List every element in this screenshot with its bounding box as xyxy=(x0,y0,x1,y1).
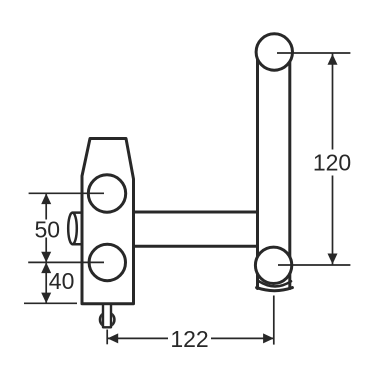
stem ball xyxy=(100,312,114,326)
svg-text:122: 122 xyxy=(170,326,208,352)
arrow right at 122 xyxy=(263,333,274,343)
horizontal pipe xyxy=(134,212,258,246)
extension line stem xyxy=(106,330,108,345)
stem white core xyxy=(102,305,112,326)
arrow up at 40 top xyxy=(41,262,51,273)
arrow left at 122 xyxy=(108,333,119,343)
body bottom circle xyxy=(89,244,125,280)
stem lines xyxy=(103,305,111,327)
right pipe bottom circle xyxy=(255,247,291,283)
right vertical pipe xyxy=(258,52,290,289)
extension line top circle center xyxy=(29,192,104,194)
pipe bottom cup outer edge xyxy=(257,288,293,291)
svg-text:50: 50 xyxy=(35,216,61,242)
dimension line 50 xyxy=(45,193,47,262)
extension line body bottom xyxy=(24,302,77,304)
arrow up at 120 top xyxy=(328,54,338,65)
dimension line 120 xyxy=(332,53,334,265)
arrow up at 50 top xyxy=(41,193,51,204)
right pipe top circle xyxy=(256,34,292,70)
extension line right pipe bottom xyxy=(273,296,275,345)
svg-text:40: 40 xyxy=(49,268,75,294)
knob top line xyxy=(73,211,83,214)
body outline xyxy=(82,139,134,304)
knob bottom line xyxy=(73,243,83,246)
arrow down at 50 bottom xyxy=(41,252,51,263)
extension line bottom circle center xyxy=(28,261,104,263)
dimension line 122 xyxy=(108,337,274,339)
arrow down at 40 bottom xyxy=(41,293,51,304)
leader right top circle xyxy=(277,52,350,54)
dimension line 40 xyxy=(45,262,47,303)
leader right bottom circle xyxy=(278,264,350,266)
pipe bottom cup inner arc xyxy=(259,281,291,286)
knob ellipse xyxy=(68,213,77,245)
body top circle xyxy=(88,175,125,212)
arrow down at 120 bottom xyxy=(328,254,338,265)
svg-text:120: 120 xyxy=(313,150,351,176)
